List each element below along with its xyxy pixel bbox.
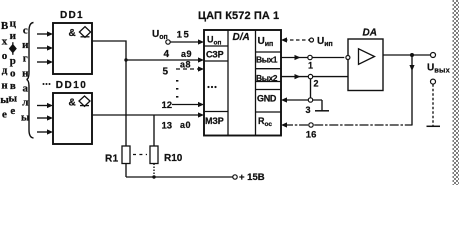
- svg-text:3: 3: [306, 105, 311, 115]
- svg-text:е: е: [10, 105, 15, 117]
- svg-text:Uип: Uип: [258, 36, 274, 48]
- svg-text:с: с: [23, 25, 28, 37]
- svg-text:о: о: [10, 68, 16, 80]
- svg-text:16: 16: [306, 129, 317, 140]
- svg-text:1: 1: [308, 60, 313, 70]
- svg-text:СЗР: СЗР: [206, 49, 224, 59]
- svg-text:и: и: [10, 30, 17, 42]
- svg-text:Uоп: Uоп: [207, 35, 221, 47]
- svg-text:В: В: [1, 20, 9, 32]
- svg-text:МЗР: МЗР: [205, 116, 224, 126]
- svg-text:Вых1: Вых1: [256, 54, 278, 64]
- svg-text:DA: DA: [363, 28, 377, 39]
- svg-text:DD10: DD10: [56, 80, 88, 91]
- svg-text:5: 5: [163, 67, 169, 78]
- svg-text:н: н: [1, 79, 8, 91]
- svg-text:ы: ы: [9, 93, 18, 105]
- svg-text:D/A: D/A: [233, 32, 250, 43]
- svg-text:Uип: Uип: [317, 36, 333, 48]
- svg-text:15: 15: [177, 30, 191, 41]
- svg-text:R1: R1: [105, 154, 119, 165]
- svg-text:а0: а0: [180, 120, 191, 130]
- svg-text:12: 12: [162, 100, 173, 111]
- svg-text:и: и: [22, 39, 29, 51]
- svg-text:R10: R10: [164, 153, 183, 164]
- svg-text:а8: а8: [180, 60, 191, 70]
- svg-text:&: &: [69, 98, 76, 109]
- svg-text:Rос: Rос: [258, 116, 272, 128]
- svg-text:е: е: [2, 108, 7, 120]
- svg-text:13: 13: [162, 121, 173, 132]
- svg-text:GND: GND: [257, 94, 277, 104]
- svg-text:а: а: [23, 82, 29, 94]
- svg-text:+ 15В: + 15В: [239, 172, 265, 183]
- svg-text:о: о: [2, 50, 8, 62]
- svg-text:Uоп: Uоп: [152, 29, 168, 41]
- svg-text:в: в: [10, 80, 16, 92]
- svg-text:&: &: [69, 28, 76, 39]
- svg-text:р: р: [10, 55, 16, 67]
- svg-text:н: н: [22, 68, 29, 80]
- svg-text:Вых2: Вых2: [256, 73, 278, 83]
- svg-text:ы: ы: [21, 111, 30, 123]
- svg-text:д: д: [2, 65, 8, 77]
- svg-text:ц: ц: [10, 18, 17, 30]
- svg-text:х: х: [2, 36, 8, 48]
- svg-text:2: 2: [314, 79, 319, 89]
- svg-text:ЦАП К572 ПА 1: ЦАП К572 ПА 1: [198, 10, 279, 22]
- svg-text:а9: а9: [181, 49, 192, 59]
- svg-text:г: г: [23, 53, 28, 65]
- svg-text:DD1: DD1: [60, 10, 84, 21]
- svg-text:4: 4: [164, 49, 170, 60]
- svg-text:Uвых: Uвых: [427, 63, 451, 75]
- svg-text:л: л: [22, 97, 28, 109]
